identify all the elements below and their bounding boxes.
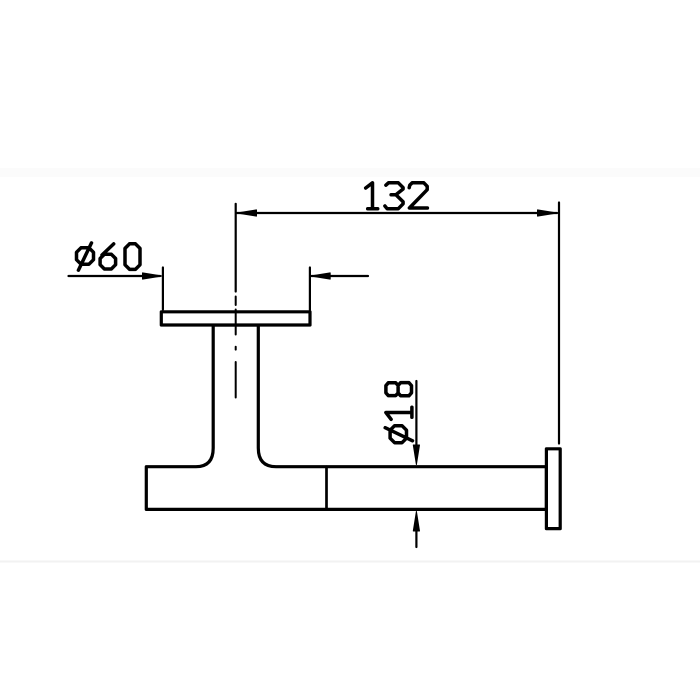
end cap plate — [546, 449, 560, 529]
dim Ø60 right tail line — [312, 275, 369, 277]
dim Ø60 left extension line — [162, 268, 164, 310]
wall flange plate (Ø60) — [161, 312, 310, 325]
holder body: stem and horizontal arm outline — [146, 325, 546, 509]
faint page line artifact lower — [0, 561, 700, 563]
text "Ø60" — [77, 243, 141, 270]
dim 132 left arrowhead — [237, 210, 257, 216]
dim 132 right extension line — [558, 203, 560, 444]
dim Ø60 right-pointing arrowhead — [143, 273, 163, 279]
text "Ø18" (rotated) — [385, 383, 412, 443]
dim Ø18 lower dimension line — [415, 528, 417, 547]
dim Ø18 down arrowhead — [413, 445, 419, 465]
dim 132 left extension line — [235, 204, 237, 292]
dim Ø18 up arrowhead — [413, 512, 419, 532]
dim Ø18 upper dimension line — [415, 381, 417, 447]
centerline of stem (dash-dot) — [235, 297, 237, 398]
arm seam line — [325, 467, 328, 510]
faint page band artifact upper — [0, 168, 700, 177]
dim 132 right arrowhead — [538, 210, 558, 216]
dim Ø60 left-pointing arrowhead — [311, 273, 331, 279]
dim Ø60 leader line left — [69, 275, 161, 277]
dim Ø60 right extension line — [309, 268, 311, 311]
dim 132 dimension line — [237, 212, 557, 214]
text "132" — [366, 183, 428, 209]
